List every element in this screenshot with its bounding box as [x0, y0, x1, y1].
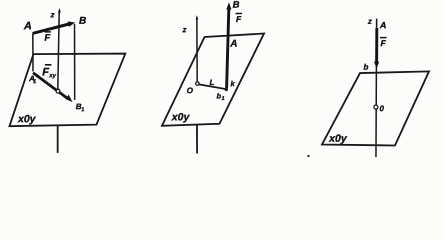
plane xOy (diagram 1) [9, 53, 125, 126]
vector F along axis pointing down (diagram 3) [375, 28, 378, 62]
point b1 dot (diagram 2) [225, 88, 228, 91]
force line F through A to b1 (diagram 2) [227, 8, 229, 88]
svg-text:k: k [230, 79, 235, 88]
arrowhead of Fxy (diagram 1) [65, 95, 72, 103]
z-axis arrowhead (diagram 1) [58, 8, 61, 13]
plane xOy (diagram 3) [322, 71, 429, 145]
projection line A to A1 (diagram 1) [32, 34, 34, 72]
vector Fxy (diagram 1) [33, 73, 68, 99]
svg-text:F: F [44, 33, 50, 44]
arrowhead of F pointing up (diagram 2) [226, 2, 231, 9]
svg-text:F: F [236, 14, 242, 24]
svg-text:F: F [381, 38, 387, 48]
scan speck below diagram 3 plane [307, 155, 309, 157]
z-axis lower segment below plane (diagram 2) [196, 124, 198, 153]
svg-text:0: 0 [379, 104, 384, 113]
z-axis lower segment below plane (diagram 1) [57, 126, 59, 153]
svg-text:xy: xy [48, 73, 56, 79]
svg-text:B: B [233, 0, 240, 11]
svg-text:z: z [367, 17, 372, 26]
svg-text:B: B [79, 16, 86, 27]
z-axis full line (diagram 3) [375, 19, 378, 158]
svg-text:1: 1 [81, 107, 84, 113]
origin circle O (diagram 1) [56, 89, 60, 93]
svg-text:b: b [364, 63, 369, 72]
svg-text:A: A [379, 20, 387, 30]
arrowhead of F pointing down (diagram 3) [374, 62, 379, 69]
svg-text:F: F [42, 67, 49, 79]
z-axis upper segment (diagram 2) [196, 17, 198, 82]
svg-text:A: A [23, 20, 32, 32]
z-axis upper segment (diagram 1) [58, 10, 59, 89]
projection line B to B1 (diagram 1) [73, 24, 75, 100]
arrowhead of F (diagram 1) [68, 21, 76, 26]
svg-text:A: A [229, 39, 237, 50]
svg-text:z: z [182, 25, 187, 34]
svg-text:O: O [187, 86, 194, 95]
svg-text:1: 1 [33, 79, 36, 85]
svg-text:1: 1 [221, 96, 224, 102]
svg-text:x0y: x0y [17, 113, 37, 125]
svg-text:x0y: x0y [171, 111, 191, 123]
svg-text:x0y: x0y [328, 133, 348, 145]
svg-text:L: L [209, 78, 214, 87]
z-axis arrowhead (diagram 2) [196, 15, 198, 19]
vector F (diagram 1) [33, 24, 71, 34]
origin circle O (diagram 2) [196, 82, 199, 85]
svg-text:z: z [50, 10, 55, 19]
segment L from O to b1 (diagram 2) [199, 84, 225, 89]
plane xOy (diagram 2) [162, 33, 264, 125]
origin circle O (diagram 3) [374, 105, 378, 109]
